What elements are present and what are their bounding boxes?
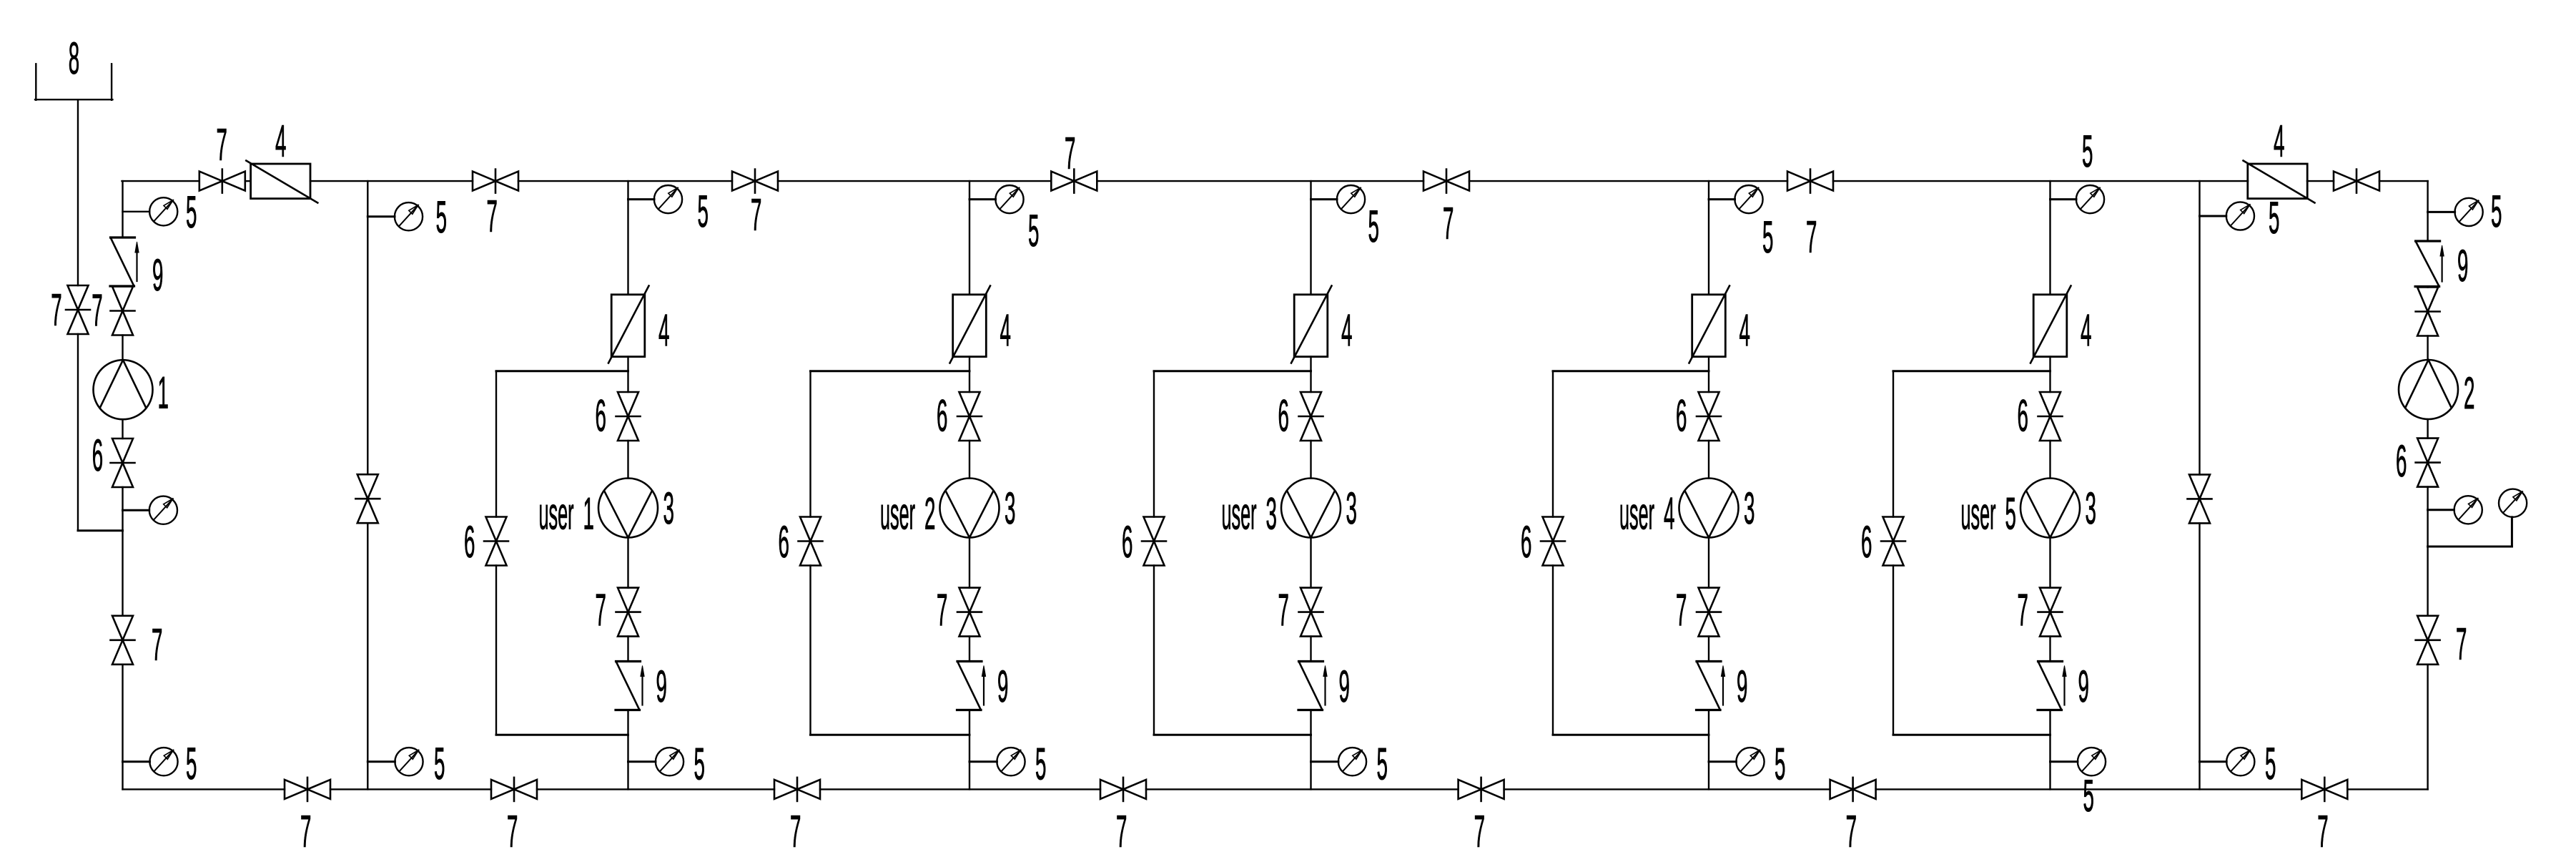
svg-text:9: 9	[2457, 241, 2468, 291]
wire tank down	[77, 99, 79, 285]
valve 7 top main 7	[2334, 170, 2379, 193]
valve 6 user3 bypass	[1142, 517, 1166, 566]
wire main3 upper	[2199, 181, 2200, 474]
svg-text:2: 2	[924, 489, 935, 539]
svg-text:7: 7	[790, 807, 801, 857]
wire main2 gauge bottom stub	[367, 760, 395, 763]
svg-text:8: 8	[69, 34, 79, 84]
gauge 5 main3 bottom	[2226, 748, 2254, 775]
svg-text:7: 7	[152, 620, 162, 670]
svg-text:4: 4	[1341, 306, 1352, 356]
valve main3	[2188, 474, 2212, 523]
wire user5 gauge bottom stub	[2051, 760, 2078, 763]
wire bottom main seg 3	[537, 788, 774, 790]
svg-text:3: 3	[1005, 484, 1015, 534]
valve 6 right	[2416, 439, 2440, 487]
wire bottom main seg 4	[820, 788, 1100, 790]
wire left gauge mid stub	[123, 509, 149, 511]
wire user3 bypass col b	[1153, 566, 1155, 735]
gauge 5 main2 top	[395, 202, 423, 230]
wire user5 col c	[2049, 441, 2051, 479]
valve 7 bottom main 7	[2301, 778, 2347, 801]
check valve 9 left	[110, 237, 139, 286]
check valve 9 user2	[957, 662, 986, 710]
wire user2 bypass col a	[809, 371, 811, 517]
pump 3 user2	[940, 479, 1000, 538]
svg-text:4: 4	[1739, 306, 1750, 356]
svg-text:4: 4	[1664, 489, 1674, 539]
wire user4 col d	[1708, 538, 1709, 588]
gauge 5 user4 bottom	[1736, 748, 1764, 775]
svg-text:3: 3	[1266, 489, 1277, 539]
wire main2 upper	[367, 181, 368, 474]
svg-text:7: 7	[751, 190, 761, 240]
svg-text:user: user	[1222, 489, 1257, 539]
svg-text:7: 7	[596, 586, 606, 636]
valve 7 top main 4	[1051, 170, 1097, 193]
gauge 5 right mid	[2454, 496, 2482, 524]
svg-text:5: 5	[2082, 127, 2093, 177]
valve main2	[355, 474, 380, 523]
wire user4 col a	[1708, 181, 1709, 295]
svg-text:4: 4	[2081, 306, 2091, 356]
svg-text:7: 7	[937, 586, 947, 636]
wire right col a	[2427, 181, 2428, 241]
svg-text:6: 6	[596, 391, 606, 441]
valve 7 left	[111, 287, 135, 335]
valve 6 user4	[1697, 392, 1721, 441]
svg-text:7: 7	[1846, 807, 1857, 857]
wire top main seg 5	[778, 180, 1051, 182]
valve 6 user3	[1299, 392, 1323, 441]
valve 7 top main 5	[1423, 170, 1469, 193]
svg-text:7: 7	[2456, 619, 2467, 670]
wire right gauge far stub h	[2428, 546, 2512, 548]
svg-text:4: 4	[2274, 117, 2284, 167]
svg-text:9: 9	[1339, 662, 1350, 712]
svg-text:9: 9	[2078, 662, 2089, 712]
wire top main seg 3	[310, 180, 473, 182]
gauge 5 user5 bottom	[2078, 748, 2106, 775]
wire user4 col c	[1708, 441, 1709, 479]
svg-text:5: 5	[186, 187, 197, 237]
valve 7 top main 3	[732, 170, 778, 193]
wire main2 gauge top stub	[367, 215, 395, 217]
wire user1 col b	[627, 357, 628, 392]
svg-text:2: 2	[2464, 368, 2474, 418]
valve 7 user2	[957, 588, 982, 637]
svg-text:7: 7	[1443, 199, 1454, 249]
wire user3 col e	[1310, 637, 1311, 662]
wire top main seg 4	[518, 180, 732, 182]
filter 4 top right	[2244, 161, 2315, 203]
filter 4 top left	[246, 161, 317, 203]
wire main3 gauge bottom stub	[2200, 760, 2227, 763]
wire right col c	[2427, 336, 2428, 361]
filter 4 user5	[2030, 286, 2071, 363]
svg-text:5: 5	[2265, 739, 2276, 789]
svg-text:9: 9	[997, 662, 1008, 712]
gauge 5 user4 top	[1734, 185, 1762, 213]
gauge 5 main2 bottom	[395, 748, 423, 775]
valve 6 user5 bypass	[1881, 517, 1905, 566]
wire user5 bypass col b	[1892, 566, 1894, 735]
wire user2 col b	[969, 357, 970, 392]
wire user4 col e	[1708, 637, 1709, 662]
wire tank down 2	[77, 334, 79, 531]
wire bottom main seg 5	[1146, 788, 1459, 790]
wire right gauge far stub v	[2511, 517, 2513, 547]
valve 7 user5	[2038, 588, 2063, 637]
wire left col d	[122, 487, 123, 616]
svg-text:6: 6	[1278, 391, 1289, 441]
wire bottom main seg 2	[330, 788, 491, 790]
wire right col d	[2427, 419, 2428, 439]
svg-text:5: 5	[694, 740, 705, 790]
wire user2 col a	[969, 181, 970, 295]
valve 7 bottom main 5	[1459, 778, 1504, 801]
svg-text:5: 5	[1762, 212, 1773, 263]
svg-text:3: 3	[663, 484, 674, 534]
check valve 9 user4	[1697, 662, 1725, 710]
filter 4 user4	[1689, 286, 1730, 363]
gauge 5 main3 top	[2226, 202, 2254, 230]
check valve 9 user3	[1298, 662, 1327, 710]
valve 6 left	[111, 439, 135, 487]
svg-text:user: user	[1961, 489, 1996, 539]
wire user4 gauge top stub	[1709, 198, 1735, 200]
wire user2 bypass top	[811, 370, 970, 372]
wire user3 gauge bottom stub	[1311, 760, 1338, 763]
gauge 5 left mid	[149, 496, 177, 524]
wire user4 gauge bottom stub	[1709, 760, 1736, 763]
gauge 5 user3 top	[1337, 185, 1365, 213]
wire user1 col a	[627, 181, 628, 295]
valve 7 tank	[66, 285, 90, 334]
wire bottom main seg 8	[2347, 788, 2427, 790]
valve 7 left lower	[111, 616, 135, 665]
valve 6 user5	[2038, 392, 2063, 441]
svg-text:7: 7	[2317, 807, 2328, 857]
wire user2 bypass bottom	[811, 734, 970, 736]
wire user3 gauge top stub	[1311, 198, 1338, 200]
wire left gauge top stub	[123, 211, 150, 212]
svg-text:5: 5	[1377, 740, 1388, 790]
gauge 5 user2 bottom	[997, 748, 1025, 775]
svg-text:9: 9	[1737, 662, 1747, 712]
wire user1 col c	[627, 441, 628, 479]
svg-text:7: 7	[51, 285, 61, 335]
wire left col e	[122, 665, 123, 790]
wire user3 bypass bottom	[1154, 734, 1311, 736]
wire top main seg 1	[122, 180, 199, 182]
wire user2 bypass col b	[809, 566, 811, 735]
check valve 9 right	[2415, 241, 2444, 287]
wire user1 bypass bottom	[496, 734, 628, 736]
svg-text:4: 4	[275, 117, 286, 167]
gauge 5 user1 bottom	[656, 748, 684, 775]
svg-text:6: 6	[1521, 517, 1531, 567]
svg-text:1: 1	[158, 368, 169, 418]
valve 7 bottom main 2	[491, 778, 537, 801]
wire user1 bypass col b	[495, 566, 497, 735]
wire user5 bypass bottom	[1893, 734, 2051, 736]
wire right gauge mid stub	[2428, 509, 2454, 511]
check valve 9 user1	[616, 662, 644, 710]
wire user5 col e	[2049, 637, 2051, 662]
gauge 5 user2 top	[995, 185, 1023, 213]
wire top main seg 6	[1097, 180, 1423, 182]
svg-text:6: 6	[1122, 517, 1132, 567]
wire user2 gauge bottom stub	[969, 760, 997, 763]
wire user2 col f	[969, 710, 970, 790]
valve 7 right lower	[2416, 616, 2440, 665]
valve 6 user1	[616, 392, 641, 441]
wire bottom main seg 1	[123, 788, 285, 790]
gauge 5 user3 bottom	[1338, 748, 1366, 775]
valve 7 bottom main 3	[774, 778, 820, 801]
wire left col a	[122, 181, 123, 237]
svg-text:9: 9	[656, 662, 667, 712]
wire user4 col b	[1708, 357, 1709, 392]
svg-text:6: 6	[464, 517, 475, 567]
valve 6 user2	[957, 392, 982, 441]
pump 3 user5	[2020, 479, 2080, 538]
wire user1 bypass col a	[495, 371, 497, 517]
wire user3 bypass col a	[1153, 371, 1155, 517]
wire user2 col d	[969, 538, 970, 588]
gauge 5 right far	[2499, 489, 2527, 517]
wire user4 col f	[1708, 710, 1709, 790]
wire top main seg 7	[1469, 180, 1787, 182]
wire user5 col b	[2049, 357, 2051, 392]
svg-text:user: user	[1619, 489, 1654, 539]
svg-text:user: user	[539, 489, 574, 539]
wire right gauge top stub	[2428, 211, 2455, 213]
svg-text:7: 7	[217, 120, 227, 170]
svg-text:7: 7	[1116, 807, 1127, 857]
wire user4 bypass bottom	[1553, 734, 1709, 736]
wire user1 col e	[627, 637, 628, 662]
wire right col e	[2427, 487, 2428, 616]
wire user1 bypass top	[496, 370, 628, 372]
pump 3 user3	[1281, 479, 1341, 538]
filter 4 user3	[1291, 286, 1332, 363]
wire user3 col d	[1310, 538, 1311, 588]
valve 6 user2 bypass	[799, 517, 823, 566]
svg-text:5: 5	[1035, 740, 1046, 790]
svg-text:5: 5	[2005, 489, 2016, 539]
wire user2 gauge top stub	[969, 198, 996, 200]
wire top main seg 9	[2307, 180, 2334, 182]
svg-text:5: 5	[436, 192, 447, 243]
svg-text:5: 5	[2083, 771, 2094, 821]
wire user5 col f	[2049, 710, 2051, 790]
check valve 9 user5	[2038, 662, 2066, 710]
wire top main seg 2	[245, 180, 251, 182]
valve 7 bottom main 1	[285, 778, 330, 801]
wire main3 lower	[2199, 523, 2200, 789]
svg-text:6: 6	[779, 517, 789, 567]
tank 8	[35, 64, 112, 100]
svg-text:6: 6	[92, 431, 103, 481]
svg-text:7: 7	[2018, 586, 2028, 636]
svg-text:5: 5	[2491, 187, 2502, 237]
gauge 5 left bottom	[149, 748, 177, 775]
wire left col c	[122, 419, 123, 439]
svg-text:3: 3	[1744, 484, 1755, 534]
wire user4 bypass col b	[1552, 566, 1554, 735]
svg-text:7: 7	[300, 807, 311, 857]
wire user3 col a	[1310, 181, 1311, 295]
svg-text:5: 5	[1775, 740, 1785, 790]
wire bottom main seg 6	[1504, 788, 1830, 790]
svg-text:7: 7	[92, 286, 102, 336]
wire user1 gauge bottom stub	[628, 760, 656, 763]
valve 7 user3	[1299, 588, 1323, 637]
wire user1 col f	[627, 710, 628, 790]
valve 7 user4	[1697, 588, 1721, 637]
wire user5 bypass top	[1893, 370, 2051, 372]
wire top main seg 10	[2379, 180, 2428, 182]
svg-text:6: 6	[1676, 391, 1687, 441]
wire right col b	[2427, 287, 2428, 288]
valve 6 user4 bypass	[1541, 517, 1565, 566]
wire user3 bypass top	[1154, 370, 1311, 372]
pump 1	[94, 360, 153, 419]
gauge 5 user5 top	[2076, 185, 2104, 213]
wire user3 col b	[1310, 357, 1311, 392]
valve 7 bottom main 6	[1830, 778, 1876, 801]
svg-text:7: 7	[1806, 212, 1817, 263]
svg-text:5: 5	[434, 739, 445, 789]
wire left gauge bottom stub	[123, 760, 150, 763]
wire user5 col a	[2049, 181, 2051, 295]
wire user1 gauge top stub	[628, 198, 655, 200]
wire user2 col c	[969, 441, 970, 479]
svg-text:7: 7	[1676, 586, 1687, 636]
valve 7 top main 6	[1787, 170, 1833, 193]
svg-text:1: 1	[583, 489, 594, 539]
svg-text:5: 5	[2269, 193, 2279, 243]
svg-text:5: 5	[698, 187, 709, 237]
svg-text:7: 7	[1065, 129, 1075, 179]
gauge 5 user1 top	[654, 185, 682, 213]
filter 4 user2	[950, 286, 991, 363]
pump 3 user4	[1679, 479, 1739, 538]
svg-text:5: 5	[186, 739, 197, 789]
wire user3 col f	[1310, 710, 1311, 790]
wire top main seg 8	[1833, 180, 2248, 182]
valve 7 top main 2	[473, 170, 518, 193]
wire user3 col c	[1310, 441, 1311, 479]
wire bottom main seg 7	[1876, 788, 2302, 790]
valve 6 user1 bypass	[484, 517, 508, 566]
wire main2 lower	[367, 523, 368, 789]
wire user4 bypass col a	[1552, 371, 1554, 517]
svg-text:7: 7	[487, 192, 498, 242]
svg-text:4: 4	[658, 306, 669, 356]
svg-text:5: 5	[1028, 206, 1039, 256]
wire right col f	[2427, 665, 2428, 790]
svg-text:6: 6	[1861, 517, 1872, 567]
wire left col b	[122, 335, 123, 361]
svg-text:user: user	[880, 489, 915, 539]
wire tank to pump suction	[78, 529, 123, 532]
valve 7 right upper	[2416, 288, 2440, 336]
svg-text:5: 5	[1368, 202, 1379, 252]
gauge 5 right top	[2455, 198, 2483, 226]
wire user5 gauge top stub	[2051, 198, 2077, 200]
svg-text:4: 4	[1000, 306, 1011, 356]
wire main3 gauge top stub	[2200, 215, 2226, 217]
filter 4 user1	[608, 286, 649, 363]
svg-text:7: 7	[1278, 586, 1289, 636]
svg-text:7: 7	[507, 807, 518, 857]
valve 7 top main 1	[199, 170, 245, 193]
pump 2	[2399, 360, 2458, 419]
svg-text:7: 7	[1474, 807, 1485, 857]
gauge 5 left top	[149, 197, 177, 225]
pump 3 user1	[598, 479, 658, 538]
valve 7 bottom main 4	[1100, 778, 1146, 801]
svg-text:6: 6	[2396, 436, 2407, 486]
wire user5 col d	[2049, 538, 2051, 588]
wire user4 bypass top	[1553, 370, 1709, 372]
svg-text:6: 6	[2018, 391, 2028, 441]
svg-text:6: 6	[937, 391, 947, 441]
svg-text:3: 3	[2086, 484, 2096, 534]
svg-text:3: 3	[1346, 484, 1357, 534]
wire user1 col d	[627, 538, 628, 588]
wire user5 bypass col a	[1892, 371, 1894, 517]
wire user2 col e	[969, 637, 970, 662]
svg-text:9: 9	[152, 250, 163, 300]
valve 7 user1	[616, 588, 641, 637]
